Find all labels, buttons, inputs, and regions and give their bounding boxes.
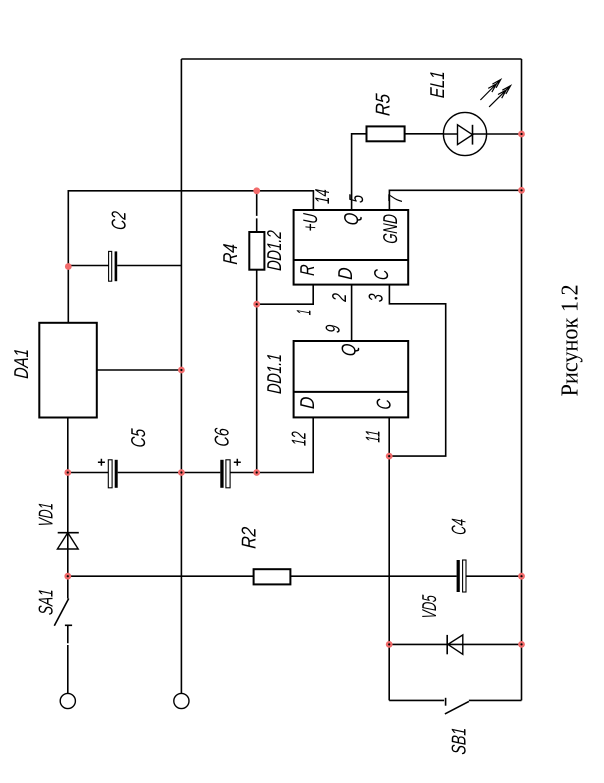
wire row C (pin11) [388, 417, 390, 700]
svg-text:2: 2 [329, 292, 351, 302]
svg-text:14: 14 [312, 188, 334, 204]
svg-text:C4: C4 [448, 518, 470, 536]
arrow 2 of EL1 [489, 86, 511, 107]
wire EL1 to bottom rail [487, 133, 522, 135]
resistor R2 [254, 569, 291, 584]
wire R4 to C6 node [256, 270, 258, 473]
wire SB1 line [389, 699, 521, 701]
capacitor C5 [108, 460, 112, 488]
plus sign C5 [98, 459, 105, 466]
arrow 1 of EL1 [480, 80, 500, 101]
IC DD1.2 [294, 210, 409, 285]
wire pin9 to pin2 [351, 285, 353, 341]
resistor R5 [367, 126, 405, 141]
wire R4 branch [256, 191, 258, 232]
capacitor C4 [457, 560, 460, 592]
switch SA1 [65, 624, 72, 626]
switch SB1 [445, 698, 447, 706]
svg-text:12: 12 [289, 431, 311, 447]
wire top rail [180, 59, 182, 693]
wire pin1 path [257, 285, 314, 305]
wire SA1 to DA1 [67, 418, 69, 599]
svg-text:GND: GND [380, 213, 402, 244]
wire C6 to pin12 row [230, 417, 313, 472]
wire C5 top [68, 472, 109, 474]
svg-text:R: R [297, 264, 319, 277]
svg-text:R5: R5 [373, 92, 395, 116]
svg-text:R2: R2 [239, 526, 261, 549]
svg-text:7: 7 [385, 194, 407, 204]
svg-text:Q: Q [341, 212, 363, 226]
wire C5 to C6 [118, 472, 221, 474]
svg-text:C: C [371, 268, 393, 281]
svg-text:Рисунок 1.2: Рисунок 1.2 [558, 284, 584, 396]
svg-text:DA1: DA1 [11, 348, 33, 380]
wire X1 to SA1 contact [67, 625, 69, 693]
svg-text:VD5: VD5 [419, 594, 441, 620]
wire pin7 GND to bottom rail [389, 190, 521, 210]
svg-text:VD1: VD1 [36, 502, 58, 528]
svg-text:C6: C6 [212, 427, 234, 448]
svg-text:SB1: SB1 [449, 727, 471, 756]
svg-text:1: 1 [293, 309, 315, 316]
wire DA1 output to rail [97, 369, 182, 371]
diode VD1 [57, 533, 78, 549]
svg-text:EL1: EL1 [427, 70, 449, 99]
capacitor C6 [220, 460, 223, 488]
wire R5 to EL1 [405, 133, 444, 135]
plus sign C6 [234, 459, 241, 466]
IC DA1 [39, 323, 97, 418]
svg-text:DD1.2: DD1.2 [264, 230, 286, 272]
wire pin5 to R5 [352, 134, 367, 210]
svg-text:+U: +U [300, 212, 322, 232]
wire pin3 to pin11 branch [389, 285, 446, 457]
diode VD5 [448, 635, 463, 654]
wire C4 to bottom rail [466, 575, 522, 577]
terminal X1 [60, 693, 75, 708]
svg-text:D: D [335, 267, 357, 281]
wire bottom rail [521, 59, 523, 700]
IC DD1.1 [294, 341, 409, 417]
svg-text:C2: C2 [109, 211, 131, 231]
svg-text:Q: Q [339, 343, 361, 357]
wire R2 branch top [68, 575, 254, 577]
svg-text:3: 3 [366, 293, 388, 303]
svg-text:DD1.1: DD1.1 [264, 353, 286, 395]
terminal X2 [174, 693, 189, 708]
capacitor C2 [68, 265, 108, 267]
LED EL1 [443, 112, 486, 155]
wire R2 to C4 [290, 575, 456, 577]
wire frame right edge [181, 58, 521, 60]
wire VD5 line [389, 643, 521, 645]
svg-text:SA1: SA1 [36, 588, 58, 616]
svg-text:R4: R4 [220, 243, 242, 265]
svg-text:C: C [373, 398, 395, 411]
svg-text:C5: C5 [128, 427, 150, 448]
svg-text:9: 9 [323, 324, 345, 334]
svg-text:11: 11 [362, 429, 384, 443]
wire DA1 right to +U corner [68, 191, 313, 323]
resistor R4 [249, 232, 264, 270]
svg-text:5: 5 [346, 193, 368, 203]
svg-text:D: D [297, 396, 319, 410]
